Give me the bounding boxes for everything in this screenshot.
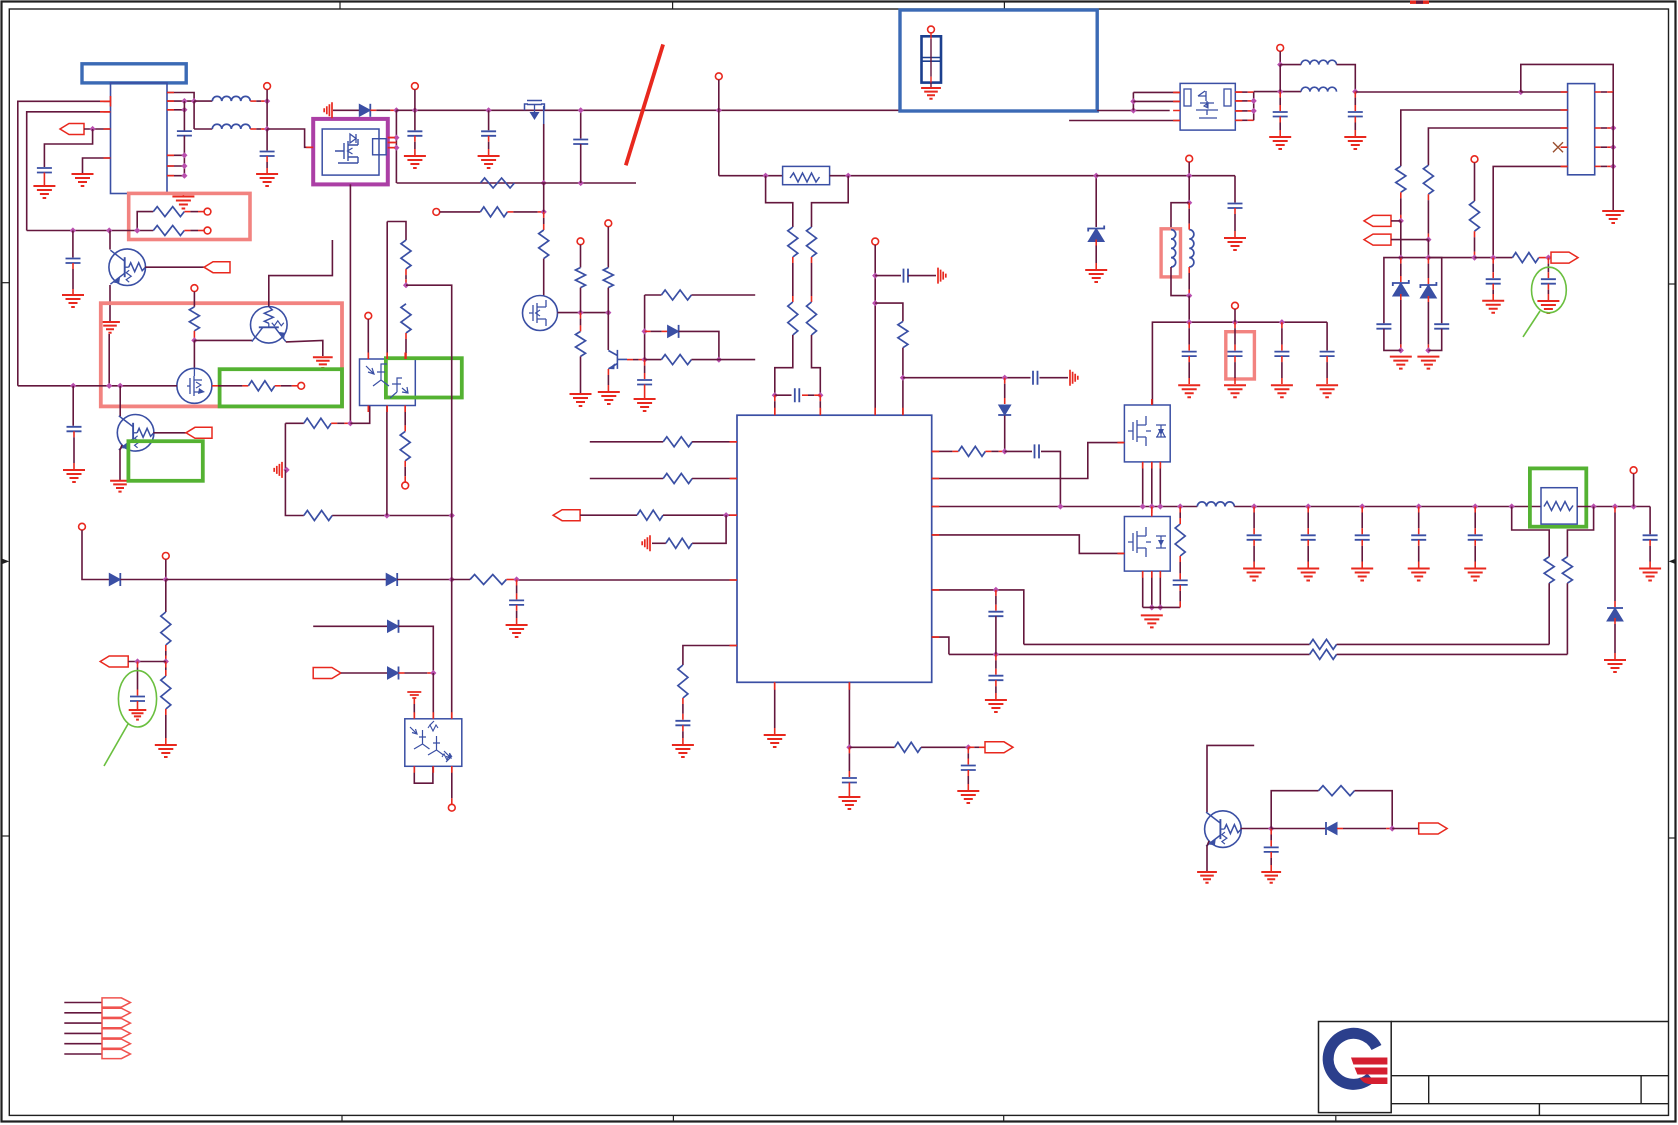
capacitor C17	[1228, 204, 1243, 209]
wire U5 top2	[386, 222, 388, 360]
wire D2 corner	[679, 331, 719, 359]
junction z2a	[1425, 237, 1431, 243]
ground R7	[570, 394, 592, 406]
purple highlight box U2	[313, 119, 388, 184]
wire L2 to N2	[250, 128, 256, 130]
wire col968 cap	[967, 747, 969, 753]
junction sns3	[1545, 255, 1551, 261]
ground R36	[155, 745, 177, 757]
junction ob0	[1057, 503, 1063, 509]
junction fo3	[1631, 503, 1637, 509]
wire obus cap4	[1418, 507, 1420, 513]
wire z1 mid	[1400, 221, 1402, 258]
resistor R36 vertical	[161, 676, 171, 709]
capacitor C36	[509, 600, 524, 605]
ground Q7	[313, 357, 333, 368]
resistor R5 vertical	[539, 230, 549, 259]
small gnd opto2	[407, 692, 421, 698]
title block bottom divider	[1538, 1104, 1540, 1116]
junction j1o4	[1610, 144, 1616, 150]
ground C16	[1537, 301, 1559, 313]
title block logo cell	[1319, 1022, 1392, 1113]
capacitor C13	[1376, 324, 1391, 329]
diode D3	[999, 405, 1011, 415]
wire U4 right row6	[932, 637, 949, 654]
junction A1	[90, 126, 96, 132]
ground Q4	[598, 392, 620, 404]
connector J1 body	[1568, 84, 1595, 175]
wire T1 right pin b	[167, 100, 194, 102]
pin stub T1 left pin2	[100, 111, 111, 113]
wire Q1 emitter	[109, 285, 111, 322]
wire J1 out5	[1595, 165, 1601, 167]
frame right center arrow	[1669, 559, 1676, 564]
capacitor C7	[573, 140, 588, 145]
resistor R40 vertical	[401, 240, 411, 269]
wire row451 cap lead	[1005, 450, 1032, 452]
wire C19 gnd	[1234, 356, 1236, 362]
frame bottom tick 2	[672, 1115, 674, 1121]
wire R23 to chassis	[652, 542, 666, 544]
ground C23	[838, 797, 860, 809]
resistor R39 vertical	[400, 431, 410, 460]
resistor R42	[1319, 786, 1355, 796]
resistor R15 vertical	[898, 321, 908, 347]
wire conn6	[64, 1053, 102, 1055]
wire D9 out	[1337, 828, 1343, 830]
wire row295 out	[691, 294, 755, 296]
wire col165 low2	[165, 662, 167, 668]
optocoupler U3 body	[1180, 83, 1235, 130]
wire R19 out	[1539, 257, 1549, 259]
wire J1 out4	[1595, 146, 1601, 148]
resistor R10	[661, 355, 691, 365]
capacitor C29	[1355, 535, 1370, 540]
resistor R14 vertical	[807, 302, 817, 335]
junction c875a	[872, 273, 878, 279]
ground C29	[1351, 569, 1373, 581]
row 257 wire	[1401, 257, 1475, 259]
resistor R4	[480, 207, 507, 217]
capacitor C14	[1434, 324, 1449, 329]
wire U4 right row5	[932, 590, 1024, 645]
transformer T1 body	[111, 83, 168, 194]
wire U5 top1	[367, 319, 369, 359]
logo stripe 2	[1355, 1068, 1388, 1075]
diode D4	[1607, 608, 1623, 621]
frame bottom tick 3	[1003, 1115, 1005, 1121]
wire R11 mid	[792, 257, 794, 263]
resistor R9	[661, 290, 691, 300]
junction q5b	[1149, 503, 1155, 509]
wire U6 bottom U	[414, 766, 433, 783]
green highlight box 4	[128, 441, 202, 481]
capacitor C31	[1468, 535, 1483, 540]
junction T1e	[181, 163, 187, 169]
main bus segment 2	[1097, 110, 1170, 112]
terminal q7	[191, 285, 198, 292]
junction ob3	[1305, 503, 1311, 509]
wire to D2	[645, 330, 651, 332]
resistor R20	[663, 437, 692, 447]
ground C6	[478, 156, 500, 168]
U6 internals	[410, 721, 451, 762]
connector arrow bank4	[102, 1029, 130, 1038]
wire cap276 lead2	[908, 275, 936, 277]
resistor R8 vertical	[603, 268, 613, 288]
inductor L1	[212, 96, 250, 101]
wire R7 to gnd	[580, 356, 582, 393]
wire ch bottom	[1171, 267, 1189, 296]
wire cap col b	[1234, 322, 1236, 328]
wire c579 cap	[516, 580, 518, 586]
capacitor C27	[1247, 535, 1262, 540]
junction row386 c	[117, 383, 123, 389]
junction z2c	[1425, 347, 1431, 353]
green highlight box 3	[220, 369, 342, 406]
wire T1 right pin e	[167, 165, 184, 167]
bypass loop left	[766, 176, 793, 227]
junction N2	[264, 126, 270, 132]
wire Q6 src2	[1151, 571, 1153, 607]
wire C16 gnd	[1547, 284, 1549, 290]
ground C1	[33, 186, 55, 198]
capacitor C39	[637, 380, 652, 385]
junction row386 a	[70, 383, 76, 389]
title block row line	[1391, 1103, 1668, 1105]
inductor L6	[1197, 502, 1234, 507]
terminal col608	[605, 220, 612, 227]
capacitor C24	[961, 766, 976, 771]
junction row386 b	[106, 383, 112, 389]
resistor R3	[480, 178, 514, 188]
junction icp1	[772, 392, 778, 398]
connector arrow sense	[1551, 252, 1578, 263]
junction N1	[264, 98, 270, 104]
wire conn4	[64, 1032, 102, 1034]
wire Q4 base row	[627, 359, 633, 361]
wire arrow to D8	[341, 672, 388, 674]
ground C3	[256, 174, 278, 186]
ground C28	[1297, 569, 1319, 581]
wire Q6 src1	[1142, 571, 1144, 607]
wire col875	[874, 245, 876, 415]
ground C34	[985, 700, 1007, 712]
resistor R16 vertical	[1396, 166, 1406, 192]
junction q5c	[1157, 503, 1163, 509]
wire br cap	[1270, 829, 1272, 835]
mosfet Q3 circle	[523, 296, 558, 331]
wire R6 to row312	[580, 288, 582, 313]
capacitor C11	[1273, 112, 1288, 117]
row 322 wire	[1152, 322, 1327, 405]
wire U4 bottom pin1	[774, 682, 776, 688]
wire U4 right row1	[932, 450, 938, 452]
junction q6b	[1149, 604, 1155, 610]
diode D7	[388, 620, 399, 632]
wire R4 to gate col	[507, 211, 513, 213]
wire cap col d	[1326, 322, 1328, 350]
terminal battery	[928, 26, 935, 33]
junction p515b	[449, 512, 455, 518]
wire R40 mid	[405, 269, 407, 275]
junction z2b	[1425, 255, 1431, 261]
terminal d579b	[162, 553, 169, 560]
wire term row322	[1234, 309, 1236, 322]
wire lc1 cap	[1279, 92, 1281, 98]
inductor L4	[1301, 87, 1336, 91]
logo Q ring	[1328, 1033, 1376, 1084]
zener ZD2	[1393, 283, 1409, 296]
wire R1 to term	[184, 211, 190, 213]
red markup slash	[626, 44, 663, 165]
junction f1	[763, 173, 769, 179]
capacitor C9	[904, 269, 909, 283]
wire obus cap5 gnd	[1474, 540, 1476, 546]
wire ZD3 col	[1427, 258, 1429, 264]
junction p515	[384, 512, 390, 518]
wire R27 down	[1179, 556, 1181, 562]
ground battery	[921, 88, 941, 99]
wire cap branch	[44, 129, 92, 167]
green markup leader left	[104, 724, 128, 766]
junction T1b2	[191, 98, 197, 104]
fuse row right	[830, 175, 1097, 177]
capacitor C16	[1541, 279, 1556, 284]
wire q7 col	[193, 292, 195, 307]
wire D4 col	[1614, 507, 1616, 513]
ground U4	[764, 735, 786, 747]
capacitor C5	[407, 131, 422, 136]
junction bus3	[578, 107, 584, 113]
wire bus2 to C6	[488, 110, 490, 130]
wire arrow to T1 pin3	[84, 128, 111, 130]
transistor Q4 npn	[608, 350, 627, 369]
row 747 wire	[849, 746, 894, 748]
wire Q5 drain3	[1159, 462, 1161, 507]
resistor R17 vertical	[1423, 165, 1433, 194]
wire col451 lowest	[451, 580, 453, 719]
frame left center arrow	[1, 560, 6, 562]
junction j1o5	[1610, 163, 1616, 169]
wire U3 out4	[1235, 119, 1241, 121]
chassis symbol bus left	[324, 102, 332, 118]
ground C37	[129, 710, 147, 720]
wire conn2	[64, 1012, 102, 1014]
IC U4 body	[737, 415, 932, 682]
wire conn5	[64, 1043, 102, 1045]
wire U4 left pin row1	[590, 441, 663, 443]
wire icp1 to IC	[774, 395, 776, 401]
chassis gnd C9	[938, 268, 946, 284]
green highlight box fuse2	[1530, 468, 1586, 526]
capacitor C26	[1173, 580, 1188, 585]
wire term608 down	[607, 227, 609, 268]
resistor R38	[304, 511, 332, 521]
wire col451 lower	[451, 516, 453, 580]
resistor R35 vertical	[161, 612, 171, 645]
capacitor C25	[1035, 444, 1040, 458]
connector arrow out747	[985, 742, 1013, 753]
wire cap col c	[1281, 322, 1283, 328]
wire R37 to j	[331, 422, 337, 424]
wire obus cap2 gnd	[1307, 540, 1309, 546]
wire U3 out1	[1235, 91, 1241, 93]
resistor R33	[248, 381, 274, 391]
wire ssr pin1	[1133, 91, 1180, 93]
row 285 wire	[406, 285, 452, 515]
ground ZD3	[1417, 357, 1439, 369]
junction lc1	[1277, 89, 1283, 95]
hook top	[387, 222, 406, 241]
wire ZD3 down	[1427, 296, 1429, 302]
U2 pins column	[395, 110, 397, 183]
junction u4l3	[723, 512, 729, 518]
ground C35	[63, 470, 85, 482]
wire U4 right row2	[932, 443, 1125, 479]
junction U2p1	[393, 135, 399, 141]
wire R2 to term	[184, 230, 190, 232]
wire c661 down	[137, 662, 139, 668]
terminal d579a	[79, 523, 86, 530]
resistor R2	[153, 226, 184, 236]
wire term to N1	[266, 90, 268, 102]
resistor R23	[666, 538, 692, 548]
wire obus cap2	[1307, 507, 1309, 513]
frame right tick 1	[1669, 283, 1677, 285]
wire Q4 emitter gnd	[607, 369, 609, 375]
wire R12 down	[775, 335, 793, 395]
fuse row to choke	[1096, 175, 1235, 177]
fuse row left	[719, 175, 783, 177]
diode D5	[109, 574, 120, 586]
junction br1	[1268, 825, 1274, 831]
resistor R32 vertical	[189, 307, 199, 331]
ground C22	[672, 745, 694, 757]
wire lc0 to L3	[1280, 64, 1301, 66]
resistor R34	[470, 575, 506, 585]
wire D6 out	[397, 579, 452, 581]
fuse F1 element	[790, 173, 820, 182]
diode D9	[1326, 823, 1337, 835]
wire Q6 src3	[1159, 571, 1161, 607]
wire term d579a	[82, 530, 109, 579]
wire R8 to row312	[607, 288, 609, 313]
wire term to R4	[440, 211, 481, 213]
wire term d579b	[165, 559, 167, 579]
wire T1 right pin d	[167, 154, 184, 156]
terminal R1	[204, 208, 211, 215]
wire cap row icl	[775, 394, 792, 396]
wire fb col c	[995, 654, 997, 660]
wire Q8 to R33	[212, 385, 218, 387]
wire col849 cap	[848, 747, 850, 753]
wire ssr pin2	[1133, 100, 1180, 102]
ground C11	[1269, 137, 1291, 149]
wire to L1	[194, 100, 212, 102]
blue highlight box battery	[900, 10, 1097, 111]
wire C32 gnd	[1649, 540, 1651, 546]
ground T1 pin4	[72, 174, 94, 186]
ground C19	[1224, 385, 1246, 397]
mosfet Q2 pass fet	[525, 101, 545, 125]
transistor Q9	[117, 415, 154, 452]
wire o423 to opto	[350, 406, 369, 424]
wire C3 to ground	[266, 156, 268, 162]
wire term lc	[1279, 51, 1281, 64]
long row 386 wire	[18, 385, 177, 387]
wire row377 out	[1040, 377, 1069, 379]
wire R26 out	[985, 450, 991, 452]
U2 pin header	[373, 139, 387, 155]
bypass cap loop z1	[1384, 258, 1401, 324]
wire col644	[644, 295, 646, 360]
wire Q5 drain2	[1151, 462, 1153, 507]
resistor R26	[958, 446, 985, 456]
junction d359	[716, 357, 722, 363]
wire bus1 to C5	[414, 110, 416, 130]
wire br row	[1271, 828, 1326, 830]
wire R39 term	[404, 461, 406, 467]
wire chassis to D1	[333, 109, 359, 111]
branch r523	[692, 515, 726, 543]
wire cap col a	[1188, 322, 1190, 328]
wire N2 to U2	[267, 129, 313, 147]
wire sns cap1	[1492, 258, 1494, 264]
wire R18 down	[1474, 231, 1476, 237]
U3 pin blocks	[1184, 89, 1191, 106]
junction c661	[134, 658, 140, 664]
wire bus4 down	[718, 110, 720, 175]
wire ch col	[1188, 176, 1190, 203]
wire U4 right row3 bus	[932, 506, 1198, 508]
wire col to Q1	[109, 231, 111, 250]
title block top line	[1391, 1021, 1668, 1023]
wire Q1 base out	[145, 266, 204, 268]
connector arrow bank3	[102, 1019, 130, 1028]
wire lc col	[1279, 65, 1281, 92]
wire out corner	[1649, 507, 1651, 535]
connector arrow bank5	[102, 1039, 130, 1048]
resistor R37	[304, 418, 331, 428]
junction r212	[541, 209, 547, 215]
junction o423	[347, 420, 353, 426]
frame left tick 1	[1, 282, 9, 284]
wire R35 down	[165, 645, 167, 651]
wire gate col 2	[543, 183, 545, 212]
junction fo1	[1591, 503, 1597, 509]
ground T1 bottom	[172, 197, 194, 209]
wire Q10 emitter	[1207, 841, 1209, 871]
row 183 wire	[397, 182, 636, 184]
wire T1 right pin c	[167, 109, 184, 111]
output bus	[1234, 506, 1541, 508]
transistor Q10	[1205, 811, 1242, 848]
resistor R31	[1310, 649, 1337, 659]
wire D3 col	[1004, 378, 1006, 384]
stub wire br	[1207, 745, 1254, 812]
resistor R18 vertical	[1470, 201, 1480, 231]
wire row451 corner	[1041, 451, 1060, 506]
wire arrow2	[1391, 239, 1428, 241]
main bus top	[396, 109, 903, 111]
terminal row322	[1232, 302, 1239, 309]
connector arrow br	[1419, 823, 1447, 834]
junction q6c	[1157, 604, 1163, 610]
wire R24 down	[682, 698, 684, 704]
zener ZD1	[1088, 229, 1104, 242]
wire N1 down	[266, 101, 268, 129]
